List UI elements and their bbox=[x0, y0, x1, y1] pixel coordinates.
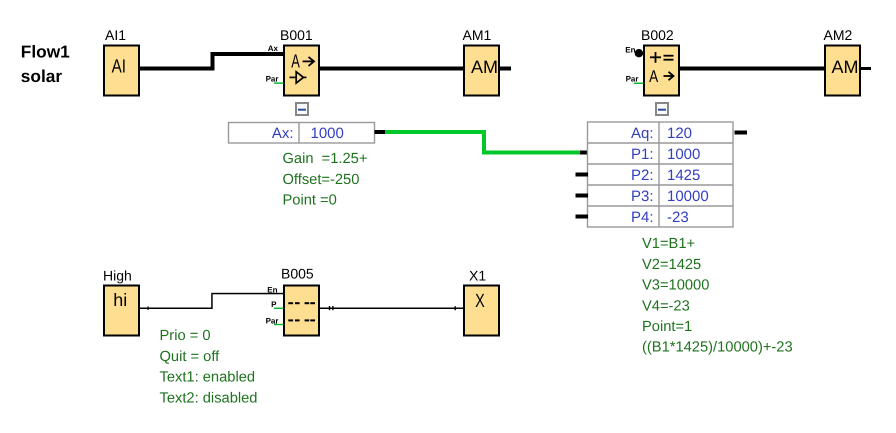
svg-text:Offset=-250: Offset=-250 bbox=[283, 172, 360, 188]
comment text B001 parameters bbox=[283, 151, 368, 208]
param row Aq bbox=[631, 125, 692, 142]
negation dot En (B002) bbox=[635, 49, 643, 57]
svg-text:X1: X1 bbox=[469, 268, 486, 284]
param row P2 bbox=[631, 167, 700, 184]
svg-text:-23: -23 bbox=[667, 209, 689, 226]
svg-text:V3=10000: V3=10000 bbox=[642, 278, 709, 294]
svg-text:Ax:: Ax: bbox=[272, 125, 294, 142]
svg-text:Aq:: Aq: bbox=[631, 125, 654, 142]
pin stub Par (B002) bbox=[634, 83, 644, 84]
svg-text:Quit = off: Quit = off bbox=[160, 349, 221, 365]
pin stub P4 input bbox=[576, 215, 589, 219]
block B002 bbox=[644, 46, 679, 96]
svg-text:Text1: enabled: Text1: enabled bbox=[160, 370, 256, 386]
pin stub Aq output (right of table) bbox=[735, 131, 748, 135]
svg-text:X: X bbox=[475, 291, 485, 312]
block X1 bbox=[464, 286, 499, 336]
svg-text:1425: 1425 bbox=[667, 167, 700, 184]
svg-text:V2=1425: V2=1425 bbox=[642, 257, 701, 273]
junction tick hi output bbox=[148, 306, 149, 310]
B001 symbol A with arrow bbox=[291, 51, 314, 72]
block AM1 bbox=[464, 46, 499, 96]
svg-text:En: En bbox=[267, 286, 277, 295]
svg-text:High: High bbox=[103, 268, 132, 284]
collapse button B002 bbox=[656, 103, 668, 115]
svg-text:P2:: P2: bbox=[631, 167, 654, 184]
svg-text:V1=B1+: V1=B1+ bbox=[642, 236, 695, 252]
svg-text:Point=1: Point=1 bbox=[642, 319, 692, 335]
svg-text:P: P bbox=[271, 300, 277, 309]
junction tick X1 input bbox=[455, 306, 456, 310]
svg-text:P4:: P4: bbox=[631, 209, 654, 226]
green wire Ax box to P1 (B002) bbox=[385, 130, 580, 155]
svg-text:AI: AI bbox=[112, 57, 126, 78]
pin stub Par (B001) bbox=[274, 82, 284, 83]
svg-text:A: A bbox=[649, 67, 659, 86]
svg-text:120: 120 bbox=[667, 125, 692, 142]
svg-text:AM1: AM1 bbox=[463, 27, 492, 43]
comment text B005 parameters bbox=[160, 328, 258, 406]
comment text Flow1 solar bbox=[21, 42, 70, 86]
svg-text:1000: 1000 bbox=[667, 146, 700, 163]
svg-text:((B1*1425)/10000)+-23: ((B1*1425)/10000)+-23 bbox=[642, 340, 793, 356]
svg-text:AI1: AI1 bbox=[105, 27, 126, 43]
B002 symbol A with arrow bbox=[649, 67, 673, 86]
pin stub P1 input (B002 table) bbox=[580, 151, 588, 155]
svg-text:Gain =1.25+: Gain =1.25+ bbox=[283, 151, 368, 167]
collapse button B001 bbox=[296, 103, 308, 115]
wire B005 output to X1 input bbox=[319, 308, 464, 310]
svg-text:Text2: disabled: Text2: disabled bbox=[160, 390, 258, 406]
parameter table B002 bbox=[588, 122, 734, 227]
B005 dashes row 2 bbox=[288, 319, 315, 321]
svg-text:1000: 1000 bbox=[311, 125, 344, 142]
svg-text:B005: B005 bbox=[281, 266, 314, 282]
junction ticks B005 output bbox=[329, 306, 334, 310]
svg-text:solar: solar bbox=[21, 66, 63, 86]
svg-text:hi: hi bbox=[113, 290, 127, 310]
svg-text:P3:: P3: bbox=[631, 188, 654, 205]
svg-text:B002: B002 bbox=[641, 27, 674, 43]
svg-text:AM: AM bbox=[471, 57, 498, 77]
svg-text:AM: AM bbox=[832, 57, 859, 77]
block B005 bbox=[284, 286, 319, 336]
param row P3 bbox=[631, 188, 709, 205]
svg-text:B001: B001 bbox=[280, 27, 313, 43]
param row P1 bbox=[631, 146, 700, 163]
wire hi output to B005 En input bbox=[139, 293, 284, 309]
wire stub AM2 output bbox=[860, 67, 871, 70]
comment text B002 parameters bbox=[642, 236, 793, 356]
block hi bbox=[104, 286, 139, 336]
svg-text:A: A bbox=[291, 51, 300, 72]
B001 amplifier symbol bbox=[290, 72, 307, 83]
wire B002 output to AM2 input bbox=[679, 67, 825, 71]
wire B001 output to AM1 input bbox=[319, 67, 464, 71]
svg-text:Par: Par bbox=[266, 74, 279, 83]
pin stub P (B005) bbox=[274, 308, 284, 309]
svg-text:10000: 10000 bbox=[667, 188, 709, 205]
wire stub AM1 output bbox=[499, 67, 511, 71]
svg-text:Ax: Ax bbox=[268, 44, 279, 53]
svg-text:AM2: AM2 bbox=[824, 27, 853, 43]
svg-text:Flow1: Flow1 bbox=[21, 42, 70, 62]
pin stub Par (B005) bbox=[274, 324, 284, 325]
B005 dashes row 1 bbox=[288, 302, 315, 304]
B002 symbol += bbox=[650, 52, 674, 63]
svg-text:En: En bbox=[625, 45, 635, 54]
pin stub P2 input bbox=[576, 173, 589, 177]
param row P4 bbox=[631, 209, 689, 226]
svg-text:Par: Par bbox=[626, 75, 639, 84]
pin stub Ax box output bbox=[375, 130, 386, 134]
pin stub P3 input bbox=[576, 194, 589, 198]
parameter box Ax of B001 bbox=[229, 123, 375, 144]
svg-text:V4=-23: V4=-23 bbox=[642, 298, 690, 314]
svg-text:P1:: P1: bbox=[631, 146, 654, 163]
block B001 bbox=[284, 46, 319, 96]
wire AI1 output to B001 Ax input bbox=[139, 52, 284, 71]
svg-text:Point =0: Point =0 bbox=[283, 193, 337, 209]
block AM2 bbox=[825, 46, 860, 96]
svg-text:Prio = 0: Prio = 0 bbox=[160, 328, 211, 344]
block AI1 bbox=[104, 46, 139, 96]
